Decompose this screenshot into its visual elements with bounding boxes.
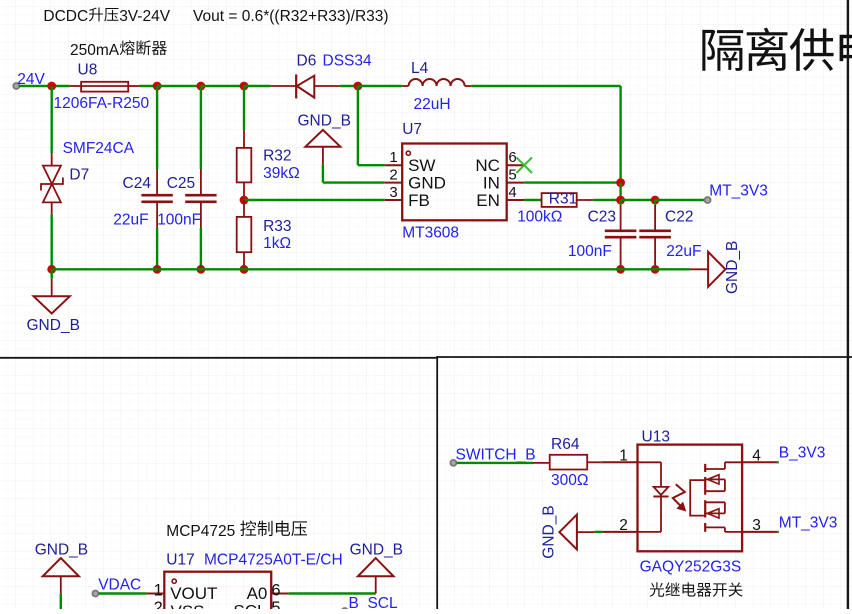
wire fuse to C24 node bbox=[140, 85, 158, 87]
svg-text:100kΩ: 100kΩ bbox=[517, 208, 562, 225]
wire R32 node to D6 bbox=[244, 85, 270, 87]
no-connect cross on pin 6 bbox=[516, 157, 532, 173]
U7 pin 1 SW stub bbox=[385, 164, 403, 166]
wire U7 EN pin to R31 bbox=[524, 199, 541, 201]
big sheet title 隔离供电 bbox=[702, 30, 743, 71]
MOSFET body arrows bbox=[707, 475, 719, 518]
U13 pin 4 stub bbox=[742, 461, 777, 463]
diode D6 DSS34 bbox=[270, 74, 340, 98]
svg-text:R64: R64 bbox=[551, 436, 580, 453]
svg-text:SCL: SCL bbox=[233, 602, 266, 610]
svg-text:2: 2 bbox=[619, 517, 628, 534]
svg-text:FB: FB bbox=[408, 191, 430, 210]
MOSFET channel segments bbox=[704, 464, 706, 532]
svg-text:4: 4 bbox=[752, 447, 761, 464]
sheet right border bbox=[847, 0, 849, 609]
U7 pin 5 IN stub bbox=[507, 182, 525, 184]
wire D6 to SW node bbox=[340, 85, 358, 87]
svg-text:GND: GND bbox=[408, 174, 446, 193]
wire tick at pin 4 bbox=[777, 461, 779, 463]
svg-text:U7: U7 bbox=[402, 121, 422, 138]
svg-text:GND_B: GND_B bbox=[27, 317, 80, 334]
wire 24V to fuse bbox=[19, 85, 70, 87]
svg-text:100nF: 100nF bbox=[157, 211, 201, 228]
junction FB divider node bbox=[240, 196, 249, 205]
svg-text:GND_B: GND_B bbox=[724, 241, 741, 294]
U7 pin 6 NC stub bbox=[507, 164, 525, 166]
svg-text:2: 2 bbox=[389, 166, 397, 183]
svg-text:4: 4 bbox=[508, 184, 516, 201]
net pin MT_3V3 bbox=[705, 197, 711, 203]
pin 1 indicator circle U17 bbox=[172, 579, 176, 583]
svg-text:U17: U17 bbox=[166, 551, 194, 568]
wire FB node to U7 FB pin bbox=[244, 199, 385, 201]
section divider vertical bbox=[436, 356, 438, 609]
U7 pin 4 EN stub bbox=[507, 199, 525, 201]
net pin SWITCH_B bbox=[450, 460, 456, 466]
junction bottom rail at D7 bbox=[47, 265, 56, 274]
label 250mA熔断器 bbox=[70, 40, 167, 59]
svg-text:GND_B: GND_B bbox=[35, 541, 88, 558]
ground GND_B below D7 bbox=[34, 269, 70, 313]
svg-text:IN: IN bbox=[483, 174, 500, 193]
U17 pin 6 A0 stub bbox=[271, 593, 289, 595]
junction C24 tap bbox=[153, 82, 162, 91]
svg-text:22uF: 22uF bbox=[113, 211, 148, 228]
wire SW node down to U7 SW pin bbox=[357, 86, 359, 165]
svg-text:U13: U13 bbox=[642, 428, 670, 445]
wire R31 to MT_3V3 node bbox=[593, 199, 620, 201]
wire output corner down to IN node bbox=[619, 86, 621, 183]
svg-text:R32: R32 bbox=[263, 148, 291, 165]
svg-text:VOUT: VOUT bbox=[170, 584, 217, 603]
junction C25 tap bbox=[197, 82, 206, 91]
ground GND_B left of U17 bbox=[43, 558, 79, 609]
wire MT_3V3 rail to label pin bbox=[655, 199, 705, 201]
transistor U13 GAQY252G3S photo relay box bbox=[638, 445, 743, 552]
ground GND_B right of U17 bbox=[358, 558, 394, 593]
section divider horizontal right bbox=[437, 356, 852, 358]
svg-text:SMF24CA: SMF24CA bbox=[63, 140, 135, 157]
svg-text:SW: SW bbox=[408, 156, 435, 175]
U7 pin 3 FB stub bbox=[385, 199, 403, 201]
junction bottom rail at R33 bbox=[240, 265, 249, 274]
ground GND_B at U13 pin 2 bbox=[559, 515, 594, 550]
U17 pin 1 VOUT stub bbox=[147, 593, 165, 595]
wire C25 node to R32 node bbox=[201, 85, 244, 87]
capacitor C23 100nF bbox=[605, 200, 637, 269]
wire U7 IN pin to output node bbox=[524, 181, 620, 183]
svg-text:39kΩ: 39kΩ bbox=[263, 165, 300, 182]
wire U17 A0 to ground bbox=[289, 592, 376, 594]
U13 pin 2 stub bbox=[602, 531, 637, 533]
wire R64 to U13 pin 1 bbox=[601, 461, 602, 463]
svg-text:C22: C22 bbox=[665, 208, 693, 225]
svg-text:B_3V3: B_3V3 bbox=[779, 445, 826, 462]
svg-text:1: 1 bbox=[619, 447, 628, 464]
svg-text:3: 3 bbox=[752, 517, 761, 534]
U13 pin 3 stub bbox=[742, 531, 777, 533]
svg-text:R33: R33 bbox=[263, 218, 291, 235]
svg-text:EN: EN bbox=[476, 191, 500, 210]
TVS diode D7 SMF24CA bbox=[41, 86, 63, 269]
U13 pin 1 stub bbox=[602, 461, 637, 463]
svg-text:6: 6 bbox=[271, 581, 280, 599]
svg-text:1206FA-R250: 1206FA-R250 bbox=[54, 95, 150, 112]
svg-text:250mA: 250mA bbox=[70, 42, 120, 59]
wire GND_B to U7 GND pin bbox=[322, 164, 324, 182]
net pin B_SCL bbox=[342, 608, 348, 614]
svg-text:GAQY252G3S: GAQY252G3S bbox=[640, 559, 742, 576]
svg-text:A0: A0 bbox=[247, 584, 268, 603]
junction IN node bbox=[616, 178, 625, 187]
U7 pin 2 GND stub bbox=[385, 182, 403, 184]
wire L4 to output corner bbox=[471, 85, 620, 87]
junction bottom rail at C24 bbox=[153, 265, 162, 274]
op-amp U7 MT3608 boost converter IC bbox=[402, 144, 507, 221]
junction node 24V rail / D7 tap bbox=[47, 82, 56, 91]
resistor R31 100k bbox=[542, 193, 594, 207]
svg-text:5: 5 bbox=[508, 166, 516, 183]
svg-text:R31: R31 bbox=[549, 191, 577, 208]
resistor R33 1k bbox=[237, 200, 252, 269]
light coupling arrow bbox=[673, 484, 686, 511]
svg-text:MCP4725: MCP4725 bbox=[166, 523, 235, 540]
junction bottom rail at C22 bbox=[651, 265, 660, 274]
svg-text:B_SCL: B_SCL bbox=[349, 595, 398, 609]
svg-text:D7: D7 bbox=[69, 167, 89, 184]
svg-text:MT_3V3: MT_3V3 bbox=[709, 183, 768, 200]
op-amp U17 MCP4725 DAC box bbox=[164, 572, 271, 614]
wire bottom ground rail bbox=[52, 268, 690, 270]
svg-text:DSS34: DSS34 bbox=[323, 53, 372, 70]
junction SW node bbox=[354, 82, 363, 91]
resistor R64 300 bbox=[533, 455, 601, 470]
svg-text:22uH: 22uH bbox=[414, 96, 451, 113]
svg-text:1: 1 bbox=[154, 581, 163, 599]
svg-text:VDAC: VDAC bbox=[98, 576, 141, 593]
svg-text:SWITCH_B: SWITCH_B bbox=[456, 446, 536, 463]
wire IN node down to EN rail bbox=[619, 183, 621, 200]
svg-text:Vout = 0.6*((R32+R33)/R33): Vout = 0.6*((R32+R33)/R33) bbox=[193, 8, 389, 25]
svg-text:C23: C23 bbox=[588, 208, 616, 225]
svg-text:MCP4725A0T-E/CH: MCP4725A0T-E/CH bbox=[204, 551, 343, 568]
capacitor C25 100nF bbox=[185, 86, 216, 269]
wire SWITCH_B to R64 bbox=[457, 462, 533, 464]
pin 1 indicator circle U7 bbox=[406, 151, 410, 155]
junction C22 tap on MT_3V3 rail bbox=[651, 196, 660, 205]
svg-text:U8: U8 bbox=[78, 62, 98, 79]
wire ground to U13 pin 2 bbox=[594, 531, 602, 533]
net pin VDAC bbox=[92, 591, 98, 597]
svg-text:VSS: VSS bbox=[171, 602, 205, 609]
capacitor C22 22uF bbox=[639, 200, 671, 269]
svg-text:MT3608: MT3608 bbox=[402, 225, 459, 242]
svg-text:NC: NC bbox=[475, 156, 500, 175]
svg-text:GND_B: GND_B bbox=[298, 113, 351, 130]
svg-text:GND_B: GND_B bbox=[541, 505, 558, 558]
power pin 24V bbox=[13, 83, 19, 89]
svg-text:C24: C24 bbox=[123, 175, 152, 192]
svg-text:DCDC: DCDC bbox=[43, 8, 88, 25]
svg-text:GND_B: GND_B bbox=[350, 541, 403, 558]
svg-text:3V-24V: 3V-24V bbox=[119, 8, 171, 25]
svg-text:5: 5 bbox=[271, 599, 280, 609]
svg-text:1: 1 bbox=[389, 149, 397, 166]
inductor L4 22uH bbox=[358, 79, 472, 86]
svg-text:L4: L4 bbox=[411, 60, 429, 77]
junction bottom rail at C25 bbox=[197, 265, 206, 274]
ground GND_B above U7 GND pin bbox=[305, 130, 340, 165]
junction bottom rail at C23 bbox=[616, 265, 625, 274]
wire VDAC to U17 pin 1 bbox=[99, 592, 147, 594]
label 光继电器开关 bbox=[650, 582, 743, 596]
resistor R32 39k bbox=[237, 86, 252, 200]
MOSFET gate block inside U13 bbox=[690, 480, 705, 515]
fuse U8 1206FA-R250 bbox=[70, 82, 140, 92]
svg-text:300Ω: 300Ω bbox=[551, 472, 588, 489]
wire tick at pin 3 bbox=[777, 531, 779, 533]
svg-text:6: 6 bbox=[508, 149, 516, 166]
svg-text:MT_3V3: MT_3V3 bbox=[779, 515, 838, 532]
LED inside U13 bbox=[638, 462, 669, 532]
svg-text:2: 2 bbox=[154, 599, 163, 609]
svg-text:D6: D6 bbox=[297, 53, 317, 70]
junction R32 tap bbox=[240, 82, 249, 91]
title MCP4725 控制电压 bbox=[166, 521, 307, 540]
section divider horizontal left bbox=[0, 357, 437, 359]
wire MT_3V3 rail C23 to C22 bbox=[621, 199, 656, 201]
MOSFET drain/source taps bbox=[705, 469, 725, 527]
svg-text:22uF: 22uF bbox=[666, 243, 701, 260]
MOSFET right-side connections bbox=[725, 462, 742, 532]
capacitor C24 22uF bbox=[141, 86, 172, 269]
svg-text:3: 3 bbox=[389, 184, 397, 201]
svg-text:100nF: 100nF bbox=[568, 243, 612, 260]
ground GND_B right side bbox=[690, 252, 726, 287]
svg-text:C25: C25 bbox=[167, 175, 195, 192]
svg-text:1kΩ: 1kΩ bbox=[263, 235, 291, 252]
junction C23 tap on MT_3V3 rail bbox=[616, 196, 625, 205]
wire C24 node to C25 node bbox=[157, 85, 201, 87]
